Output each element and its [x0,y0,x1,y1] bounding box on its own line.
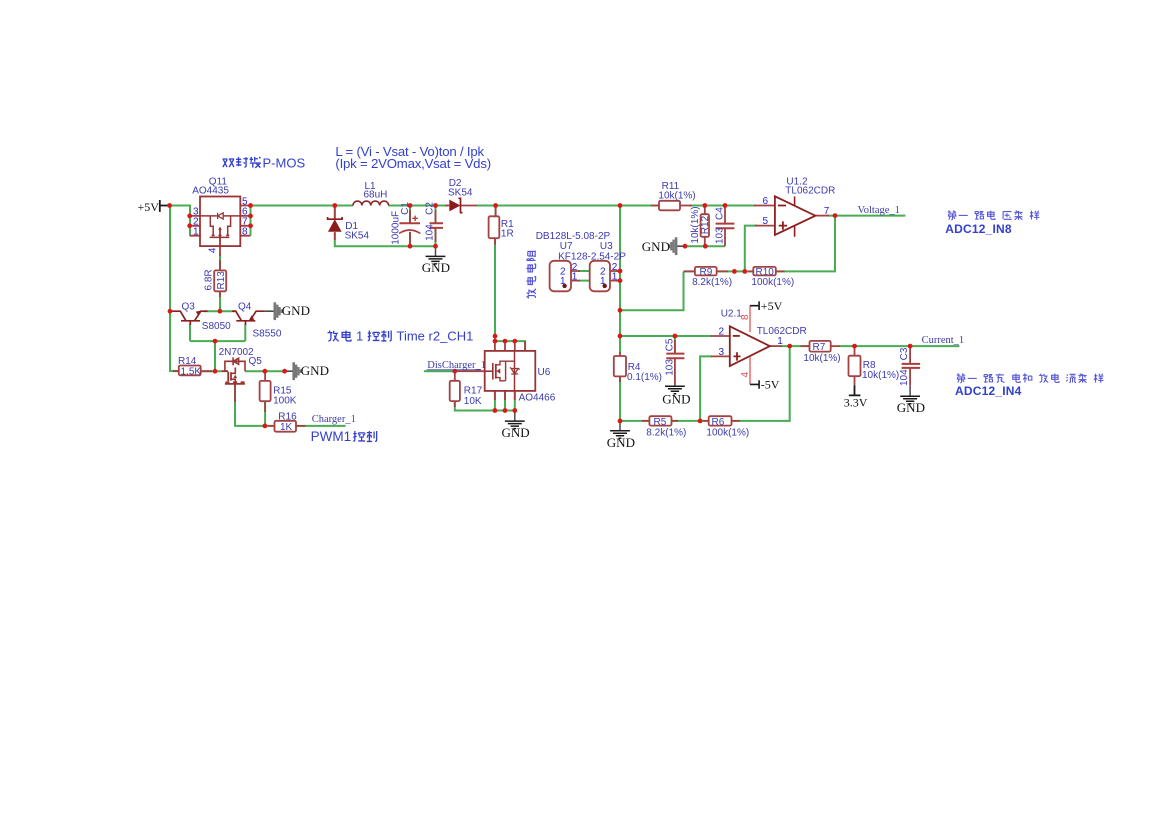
svg-text:C1: C1 [400,202,411,215]
svg-text:1.5K: 1.5K [181,366,202,377]
wire R17 leads [454,371,456,407]
ground flag at Q4 [265,302,282,320]
wire R10 leads [748,270,785,272]
wire R17 bottom to U6 source pins [455,401,515,410]
note 第一 路充 电和 放电 流采 样 [957,373,1104,382]
wire Q5 source down [235,386,275,426]
wire R5 leads [642,420,678,422]
op-amp U2.1 power stubs pin8 pin4 [749,306,751,385]
wire R9 to R10 [684,270,754,272]
resistor R11 [659,201,680,211]
wire pin5 feedback vertical [745,226,757,272]
svg-text:Q3: Q3 [182,302,196,313]
resistor R17 [450,381,460,401]
wire R13 bottom to Q3/Q4 bases [219,291,221,311]
node R12 bottom [683,244,688,249]
node U3 pin2 rail [618,269,623,274]
wire R14 right to Q5 gate [201,370,222,372]
wire Q4 collector vertical [244,324,246,341]
svg-text:(Ipk = 2VOmax,Vsat = Vds): (Ipk = 2VOmax,Vsat = Vds) [335,156,491,171]
transistor Q4 S8550 PNP [232,311,265,325]
resistor R13 [214,270,226,291]
svg-text:Q4: Q4 [238,302,252,313]
node U3 pin1 rail [618,278,623,283]
capacitor C2 (104) [430,223,444,228]
node +5V [167,203,172,208]
node U6 drain pin7 [512,339,517,344]
wire DisCharger_1 [424,370,456,372]
wire Q11 right pins vertical [250,206,252,236]
svg-text:U7: U7 [560,241,573,252]
junction dots [167,203,912,428]
wire +5V to Q11 left rail [170,206,190,236]
svg-text:104: 104 [899,369,910,386]
node R4 bottom [618,419,623,424]
svg-text:100K: 100K [273,396,297,407]
ground earth under R4 [610,421,630,438]
wire R14 leads [173,370,212,372]
resistor R7 [810,341,831,352]
svg-text:U6: U6 [538,367,551,378]
svg-text:C4: C4 [714,207,725,220]
wire U6 source stubs upper [495,391,515,400]
wire U2 output lead [770,345,782,347]
resistor R16 [275,421,297,432]
svg-text:7: 7 [824,206,830,217]
wire R8 leads [854,346,856,385]
wire D1 leads [334,206,336,241]
node C2 top [433,203,438,208]
svg-text:R13: R13 [216,271,227,290]
transistor U6 AO4466 NMOS body [485,351,536,391]
svg-text:100k(1%): 100k(1%) [751,277,794,288]
wire C1 bottom lead [409,233,411,247]
node U3 pin1 marker [603,284,607,288]
svg-text:103: 103 [665,359,676,376]
resistor R14 [179,366,201,376]
node R9 rail [618,308,623,313]
node rail top [618,203,623,208]
svg-text:GND: GND [662,392,690,407]
note 放电电阻 (vertical) [526,251,535,299]
wire Q11 right pin stubs [240,206,250,236]
wire R10 to output [776,216,835,272]
wire U7 pin leads [571,271,580,281]
svg-text:TL062CDR: TL062CDR [785,186,835,197]
wire U6 gate lead [455,370,492,372]
wire C4 leads [724,206,726,247]
inductor L1 68uH [353,201,389,205]
node C1 bottom [408,244,413,249]
svg-text:1: 1 [600,276,606,287]
wire C2 top lead [435,206,437,223]
wire D1 to bottom [335,233,436,246]
wire R9 leads [684,270,728,272]
wire C3 leads [909,346,911,386]
wire U1 pin6 lead [754,205,775,207]
connector pin1 markers [562,284,607,288]
svg-text:R7: R7 [813,342,826,353]
wire R11 leads [651,205,692,207]
node U6 source pin3 [512,408,517,413]
ground earth under C3 [900,386,920,404]
connector U7 body [550,261,571,292]
svg-text:ADC12_IN8: ADC12_IN8 [945,222,1012,236]
svg-text:R12: R12 [700,215,711,234]
wire R6 leads [703,420,740,422]
svg-text:GND: GND [897,400,925,415]
node C1 top [408,203,413,208]
svg-text:P-MOS: P-MOS [263,156,306,171]
node R1 top [493,203,498,208]
svg-text:R16: R16 [278,411,297,422]
note 第一 路电 压采 样 [948,210,1040,219]
svg-text:Q5: Q5 [249,356,263,367]
wire D1 branch [334,206,336,219]
svg-text:1000uF: 1000uF [390,211,401,245]
wire R4 leads [619,352,621,382]
svg-text:1: 1 [572,272,578,283]
wire R6 to U2 output [741,346,790,421]
node U1 output [833,213,838,218]
svg-text:8: 8 [740,314,751,320]
wire C5 leads [674,340,676,385]
svg-text:Voltage_1: Voltage_1 [858,205,900,216]
svg-text:U3: U3 [600,241,613,252]
node pin2 rail [618,334,623,339]
resistor R10 [753,267,776,276]
svg-text:4: 4 [740,372,751,378]
svg-text:ADC12_IN4: ADC12_IN4 [955,384,1022,398]
wire C2 bottom lead [435,228,437,246]
node R15 top [263,369,268,374]
transistor Q5 2N7002 NMOS [222,357,245,386]
svg-text:SK54: SK54 [448,188,473,199]
svg-text:10k(1%): 10k(1%) [803,353,840,364]
wire R7 to Current_1 [839,345,959,347]
wire R1 leads [494,207,497,245]
svg-text:GND: GND [301,363,329,378]
resistor R1 [489,216,500,238]
node U6 source pin2 [503,408,508,413]
resistor R6 [709,416,732,425]
wire R13 top [219,254,221,270]
svg-text:SK54: SK54 [345,231,370,242]
svg-text:C5: C5 [665,338,676,351]
wire +5V rail down left side [170,206,179,372]
wire U1 output lead [815,215,829,217]
svg-text:6: 6 [763,196,769,207]
node U6 drain pin5 [493,339,498,344]
resistor R5 [649,416,671,425]
wire Q3-Q4 bottom [190,340,245,342]
ground earth under C5 [665,385,685,394]
svg-text:GND: GND [502,425,530,440]
wire bottom feedback R5 R6 [620,420,741,422]
node R16 left [263,424,268,429]
note 双封装 P-MOS [223,157,261,168]
power -5V symbol at U2.1 pin4 [750,380,759,389]
svg-text:S8050: S8050 [202,321,231,332]
note 放电 1 控制 Time r2_CH1 [328,331,351,342]
svg-text:100k(1%): 100k(1%) [706,428,749,439]
wire R13 leads [219,260,221,297]
svg-text:1: 1 [193,226,199,237]
wire R16 to Charger_1 [296,425,346,427]
svg-text:5: 5 [763,216,769,227]
power +5V symbol far left [160,200,170,212]
wire main vertical rail x620 [619,206,621,355]
svg-text:Time r2_CH1: Time r2_CH1 [397,329,474,344]
wire U1 output to Voltage_1 [827,215,905,217]
wire R16 leads [268,425,306,427]
svg-text:2: 2 [719,326,725,337]
wire L1 to D2 [388,205,447,207]
power 3.3V symbol under R8 [849,385,861,395]
wire R15 bottom [264,401,266,426]
svg-text:DisCharger_1: DisCharger_1 [427,360,486,371]
connector U3 body [590,261,610,292]
node R5-R6 [698,419,703,424]
transistor Q11 AO4435 dual P-MOS body [200,197,240,247]
resistor R4 [614,356,626,376]
wire R12 leads [704,206,706,247]
svg-text:1: 1 [612,272,618,283]
node R8 top [852,344,857,349]
node Q3/Q4 emitter center [218,309,223,314]
wire Q3 collector vertical [189,324,191,341]
node Q11 pin3 [187,214,192,219]
svg-text:GND: GND [607,435,635,450]
svg-text:8.2k(1%): 8.2k(1%) [692,277,732,288]
node C4 top [723,203,728,208]
transistor Q3 S8050 NPN [170,311,208,325]
wire R7 leads [801,345,841,347]
svg-text:3: 3 [719,347,725,358]
wire C1 top lead [409,206,411,223]
node Q11 pin5 [248,203,253,208]
wire Q11 pin4 stub [219,246,221,256]
wire U2 pin2 lead [711,335,730,337]
wire U2 pin3 lead [711,355,730,357]
resistor R12 [701,214,709,237]
wire U6 drain stubs [495,341,525,351]
svg-text:4: 4 [208,247,219,253]
svg-text:+5V: +5V [761,299,783,313]
power +5V symbol at U2.1 pin8 [750,301,759,310]
node R12 bottom 2 [703,244,708,249]
ground earth under C2 [426,246,446,264]
op-amp U1.2 TL062CDR [775,196,816,237]
node U6 source pin1 [493,408,498,413]
node Q11 pin2 [187,223,192,228]
wire D2 leads [445,205,477,207]
svg-text:+5V: +5V [138,200,160,214]
svg-text:1: 1 [356,329,363,344]
wire R15 top lead [264,371,266,381]
svg-text:Charger_1: Charger_1 [312,414,356,425]
resistor R8 [849,356,861,377]
svg-text:8.2k(1%): 8.2k(1%) [646,428,686,439]
wire R15 bottom lead [264,401,266,412]
op-amp U2.1 TL062CDR [730,326,770,366]
diode D1 SK54 [328,217,343,232]
capacitor C1 (1000uF electrolytic) [399,216,420,234]
wire main rail Q11 to L1 [251,205,354,207]
wire Q5 source lead [234,384,236,403]
svg-text:PWM1: PWM1 [311,429,352,444]
wire R9 net to rail [620,271,684,310]
svg-text:AO4466: AO4466 [519,393,556,404]
wire R12 bottom net [684,245,725,247]
svg-text:1: 1 [777,336,783,347]
node C2 bottom [433,244,438,249]
wire C5 top lead [674,336,676,353]
svg-text:1R: 1R [501,229,514,240]
svg-text:GND: GND [282,303,310,318]
node Q3 collector rail [168,309,173,314]
svg-text:GND: GND [642,239,670,254]
svg-text:10k(1%): 10k(1%) [862,370,899,381]
wire U3 pin leads [610,271,618,281]
svg-text:R10: R10 [756,267,775,278]
node U7 pin1 marker [562,284,566,288]
svg-text:10k(1%): 10k(1%) [658,191,695,202]
wire Q3 emitter junction line [204,310,236,312]
svg-text:104: 104 [424,224,435,241]
wire R11 to U1 pin6 [689,205,756,207]
svg-text:8: 8 [242,226,248,237]
svg-text:1: 1 [560,276,566,287]
svg-text:GND: GND [422,260,450,275]
node Q5 gnd [282,369,287,374]
svg-text:S8550: S8550 [253,329,282,340]
wire pin3 net [700,356,712,421]
capacitor C3 (104) [902,364,921,368]
svg-text:Current_1: Current_1 [922,335,965,346]
ground flag at Q5 [285,362,301,380]
resistor R15 [260,381,271,401]
node R9-R10 b [742,269,747,274]
svg-text:C3: C3 [899,347,910,360]
svg-text:AO4435: AO4435 [192,186,229,197]
svg-text:0.1(1%): 0.1(1%) [627,372,662,383]
svg-text:R6: R6 [712,417,725,428]
net label underline DisCharger_1 [427,369,482,371]
node U2 output [787,344,792,349]
capacitor C5 (103) [666,354,684,359]
ground flag at R12/C4 net [669,237,685,255]
node Q11 pin7 [248,223,253,228]
svg-text:6.8R: 6.8R [204,269,215,290]
wire R1 top lead [495,206,497,217]
svg-text:R9: R9 [700,267,713,278]
node Q5 gate [213,369,218,374]
node U6 drain pin6 [503,339,508,344]
wire Q5 source line to GND flag [245,370,286,372]
node R17 top [452,369,457,374]
svg-text:R5: R5 [654,417,667,428]
wire C1 leads [409,210,411,246]
wire C2 leads [435,210,437,242]
node Q3/Q4 bases [213,339,218,344]
node C5 top [673,334,678,339]
svg-text:10K: 10K [464,396,482,407]
svg-text:KF128-2.54-2P: KF128-2.54-2P [558,251,626,262]
capacitor C4 (103) [716,224,735,229]
wire U7-U3 links [578,271,620,281]
node U6 drain feed [493,334,498,339]
svg-text:-5V: -5V [761,378,780,392]
node R12 top [702,203,707,208]
wire U6 source stubs [495,391,515,411]
ground earth under U6 [505,411,525,429]
wire Q11 left pin stubs [190,216,200,236]
node C3 top [908,344,913,349]
node D1 top [332,203,337,208]
wire U2 output to R7 [781,345,810,347]
node Q11 pin6 [248,214,253,219]
wire R4 bottom to gnd junction [619,376,621,421]
svg-text:3.3V: 3.3V [844,395,868,409]
wire pin2 net [620,335,712,337]
diode D2 SK54 [449,198,462,212]
svg-text:1K: 1K [280,422,293,433]
node R9-R10 a [732,269,737,274]
wire U1 pin5 lead [755,225,775,227]
wire D2 to R11 [476,205,660,207]
resistor R9 [695,267,717,276]
wire bases to gate line [214,341,216,371]
wire U6 top pins [495,341,525,351]
svg-text:C2: C2 [424,202,435,215]
svg-text:68uH: 68uH [364,190,388,201]
wire R1 down to U6 [494,238,496,341]
svg-text:103: 103 [714,227,725,244]
